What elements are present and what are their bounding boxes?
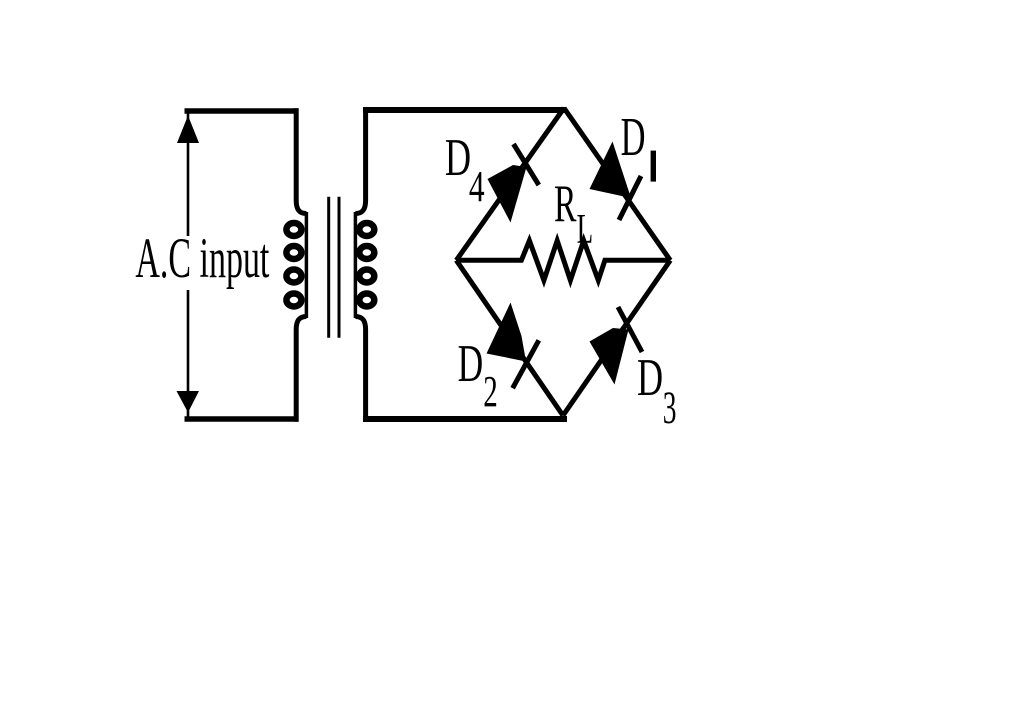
wire: primary right vertical lower [296,317,306,422]
transformer core line right [338,197,341,338]
wire: primary right vertical upper [296,108,306,213]
svg-text:3: 3 [663,383,677,434]
resistor RL between node left and node right [456,241,670,281]
wire: bridge lower-left edge (node left to node bottom) [456,260,563,415]
wire: bridge upper-left edge (node top to node left) [456,108,564,260]
diode D2 triangle [487,303,527,362]
diode D2 cathode bar [513,340,539,388]
diode D1 cathode bar [619,176,641,220]
svg-text:R: R [554,173,577,233]
label: D (diode D3) [637,348,663,406]
wire: secondary left vertical upper [355,108,365,213]
label: 2 subscript of D2 [483,368,498,416]
transformer secondary winding spine [354,212,358,318]
label: D (diode D4) [445,128,471,186]
wire: secondary loop top [363,107,566,113]
diode D3 triangle [590,328,629,385]
label: 1 subscript of D1 [651,151,656,182]
label: D (diode D1) [621,106,646,167]
transformer primary winding turn 1 [286,223,301,236]
transformer primary winding turn 4 [286,294,301,307]
label: 3 subscript of D3 [663,383,677,434]
transformer core line left [327,197,330,338]
label: R (load resistor) [554,173,577,233]
wire: bridge upper-right edge (node top to node right) [564,108,670,260]
label: A.C input [131,227,272,290]
svg-text:A.C input: A.C input [135,227,269,290]
transformer secondary winding turn 3 [359,270,374,283]
transformer secondary winding turn 4 [359,294,374,307]
label: D (diode D2) [458,334,484,393]
transformer primary winding turn 2 [286,246,301,259]
wire: secondary left vertical lower [355,317,365,422]
diode D1 triangle [590,142,632,199]
transformer secondary winding turn 2 [359,246,374,259]
svg-text:L: L [577,205,593,253]
wire: primary loop top [185,108,299,114]
wire: bridge lower-right edge (node bottom to node right) [563,260,670,415]
diode D4 triangle [488,165,527,223]
label: 4 subscript of D4 [469,163,485,211]
arrowhead up (A.C input arrow top) [177,116,199,144]
wire: secondary loop bottom [363,416,567,422]
svg-text:4: 4 [469,163,485,211]
diode D4 cathode bar [514,144,539,185]
transformer primary winding turn 3 [286,270,301,283]
transformer primary winding spine [305,212,309,318]
wire: A.C input measurement arrow shaft [187,112,190,418]
label: L subscript of RL [577,205,593,253]
wire: primary loop bottom [185,416,299,422]
transformer secondary winding turn 1 [359,223,374,236]
diode D3 cathode bar [618,307,642,352]
svg-text:D: D [637,348,663,406]
svg-text:2: 2 [483,368,498,416]
svg-text:D: D [621,106,646,167]
arrowhead down (A.C input arrow bottom) [177,391,200,413]
svg-text:D: D [445,128,471,186]
svg-text:D: D [458,334,484,393]
